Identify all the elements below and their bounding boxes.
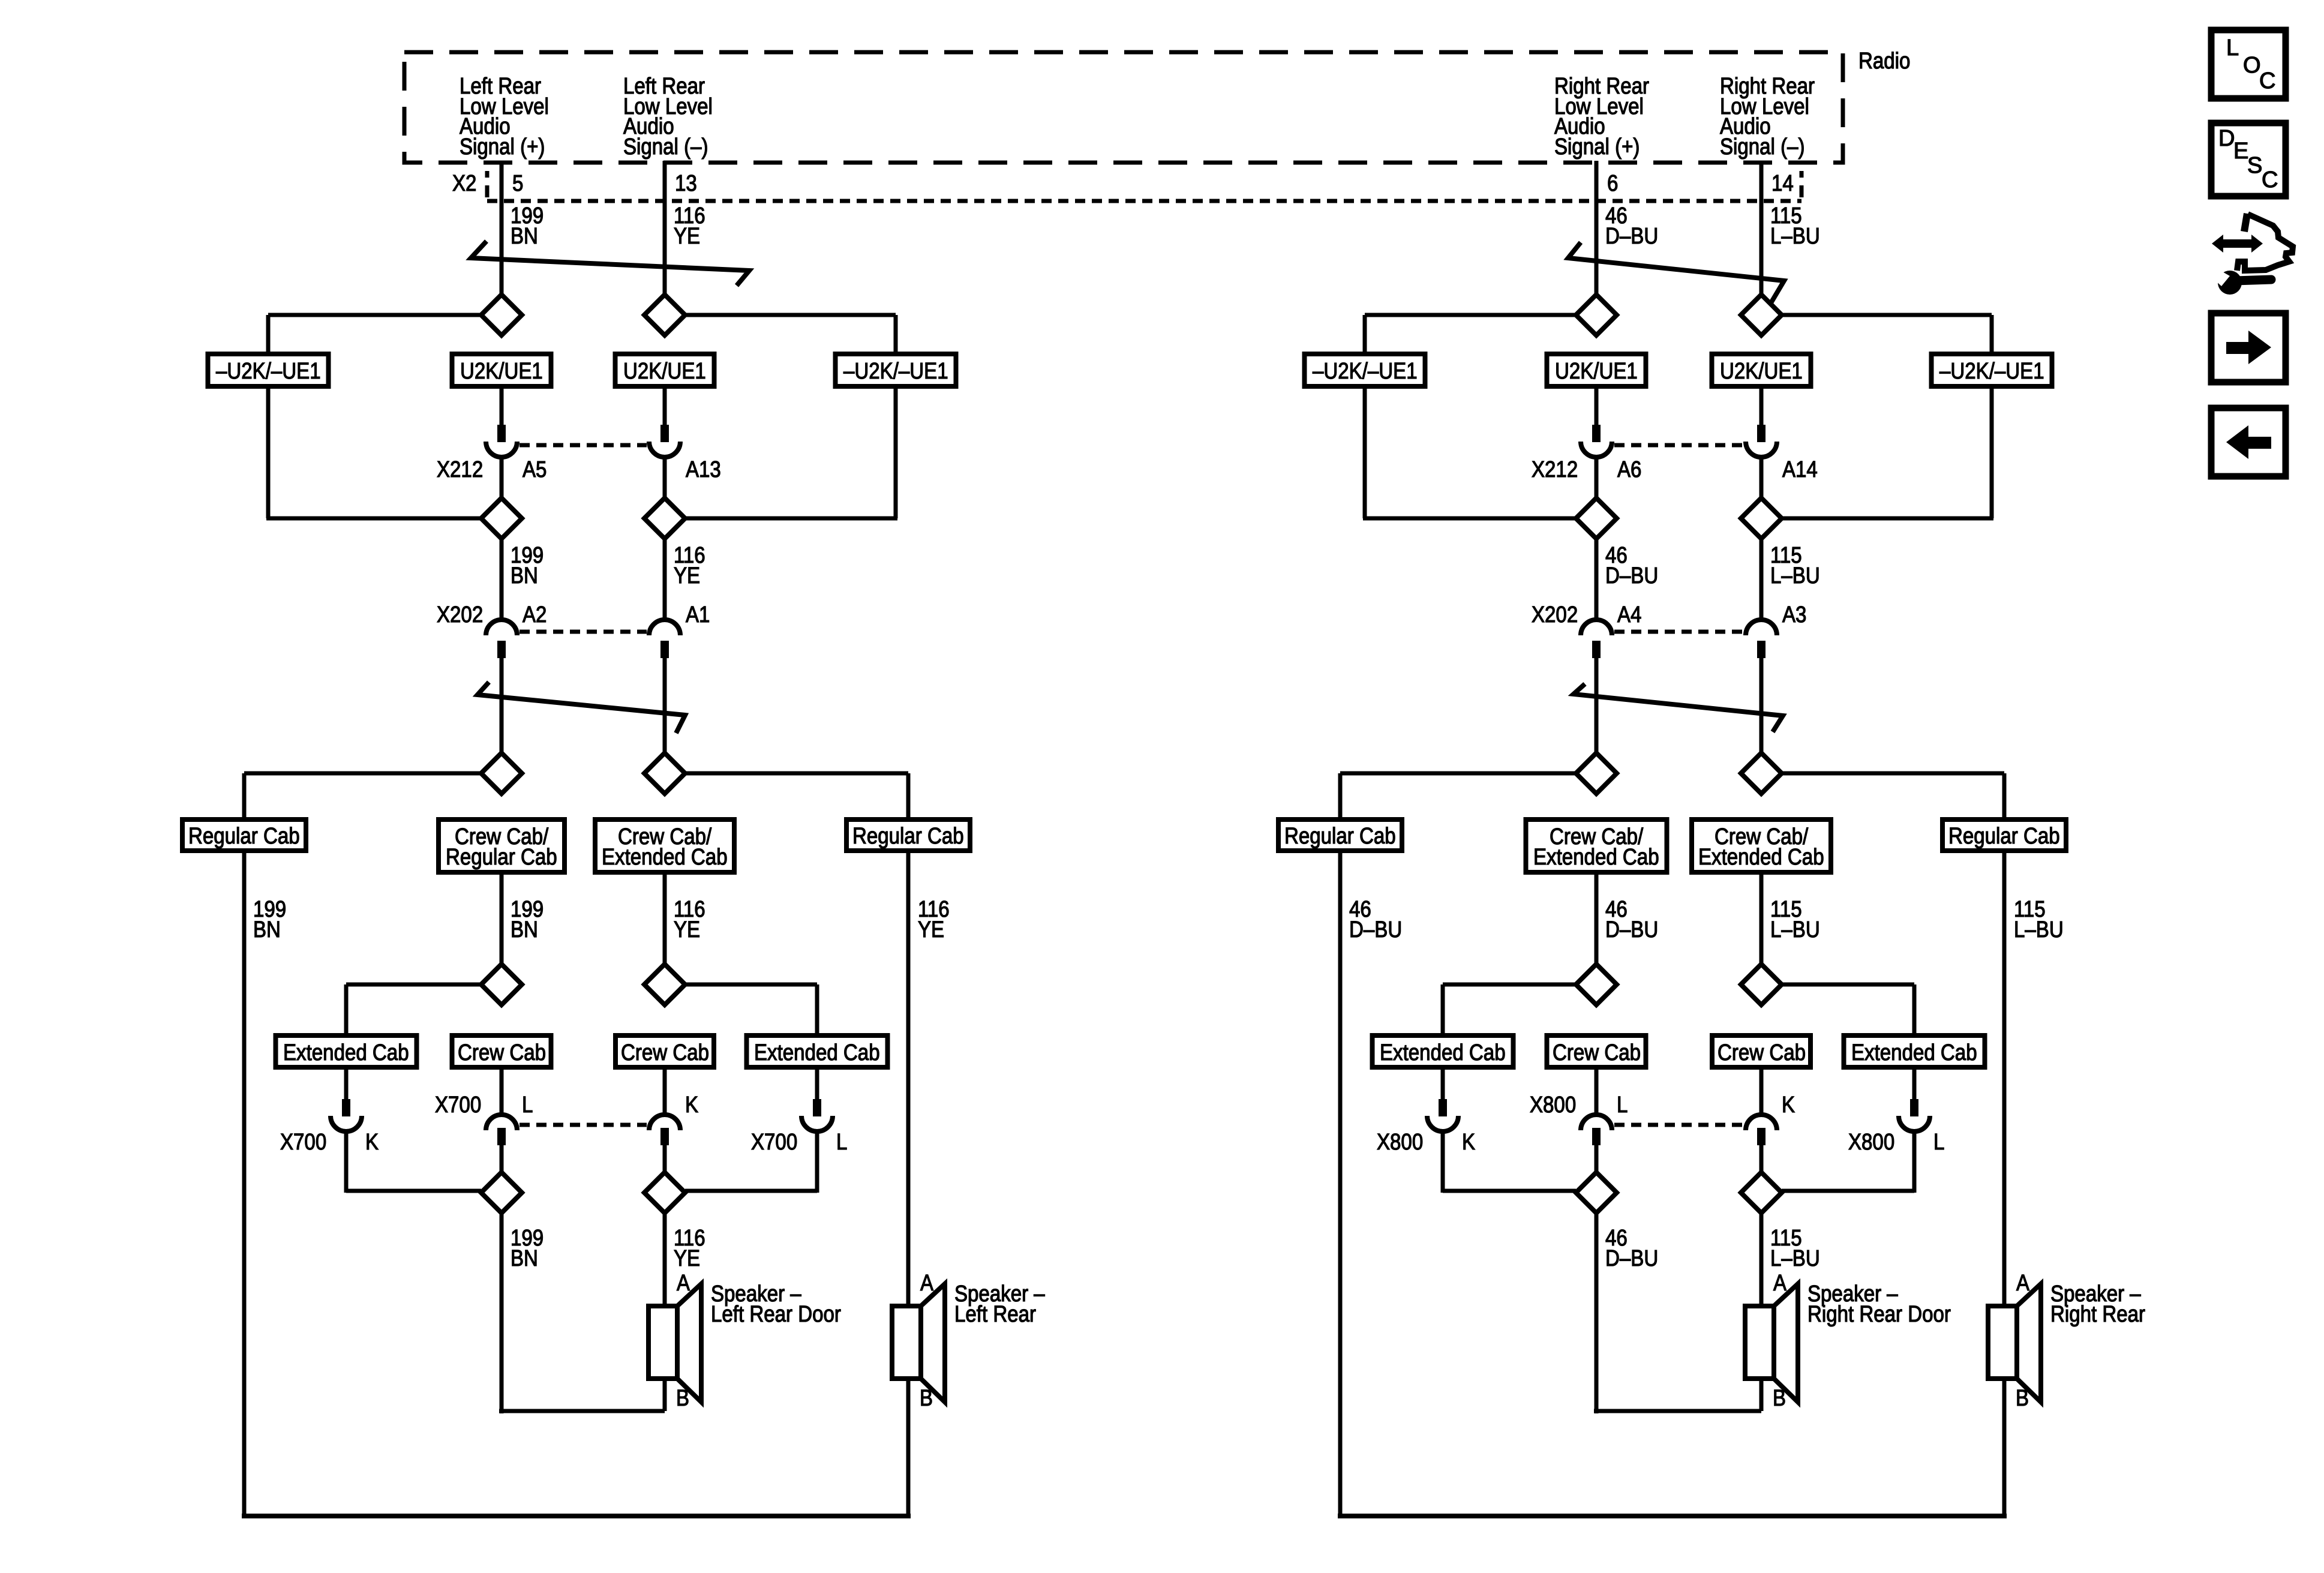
wire center connector to splice row5 (500, 1143, 504, 1173)
left option rail down to splice row2 (1363, 386, 1367, 518)
wire X212 to splice row2 (1595, 458, 1599, 499)
option box Extended Cab (left) (1373, 1035, 1514, 1067)
connector X202 terminal A1 female socket (649, 620, 680, 635)
svg-text:B: B (2016, 1386, 2029, 1411)
svg-text:A14: A14 (1782, 457, 1818, 482)
connector X202 terminal A2 female socket (486, 620, 517, 635)
svg-text:E: E (2233, 139, 2248, 164)
svg-text:C: C (2262, 167, 2278, 193)
svg-text:A: A (1773, 1271, 1787, 1296)
svg-text:Extended Cab: Extended Cab (1851, 1040, 1977, 1065)
wire X202 to splice row3 (500, 656, 504, 754)
off-page arrow crossing wires (top) (471, 241, 749, 286)
svg-text:Regular Cab: Regular Cab (446, 845, 557, 870)
svg-text:A2: A2 (523, 602, 547, 628)
svg-text:–U2K/–UE1: –U2K/–UE1 (1313, 359, 1418, 384)
svg-text:D–BU: D–BU (1349, 917, 1402, 942)
radio dashed outline box (404, 52, 1843, 163)
wire Crew Cab box to connector X700 (500, 1067, 504, 1113)
off-page arrow crossing wires (top) (1568, 242, 1784, 303)
svg-text:L: L (522, 1092, 533, 1118)
option box U2K/UE1 (on wire 1) (452, 354, 551, 386)
wire side connector to splice row5 (right) (1912, 1133, 1917, 1193)
connector X212 terminal A5 male pin (497, 425, 506, 442)
connector X202 terminal A3 female socket (1746, 620, 1777, 635)
connector X202 dashed tie line (520, 630, 647, 634)
wire X212 to splice row2 (663, 458, 667, 499)
wire Extended Cab box to connector X800 (left) (1441, 1067, 1445, 1101)
option box Extended Cab (right) (747, 1035, 888, 1067)
wire X202 to splice row3 (1595, 656, 1599, 754)
connector X202 terminal A1 male pin (660, 641, 669, 658)
Regular Cab rail down to speaker A (906, 851, 911, 1306)
option box Crew Cab (wire2) (615, 1035, 714, 1067)
svg-text:Crew Cab: Crew Cab (1553, 1040, 1641, 1065)
right option rail down to splice row2 (894, 386, 898, 518)
speaker Right Rear Door (1745, 1306, 1774, 1379)
wire arm to Regular Cab rail (right) (685, 772, 908, 776)
bottom return rail (1338, 1514, 2007, 1518)
option box U2K/UE1 (on wire 1) (1547, 354, 1646, 386)
svg-text:X800: X800 (1848, 1130, 1894, 1155)
splice diamond on wire 199 (row3) (481, 753, 522, 794)
svg-text:Extended Cab: Extended Cab (1380, 1040, 1506, 1065)
splice diamond on wire 116 (row1) (644, 295, 685, 335)
option box Crew Cab (wire1) (1547, 1035, 1646, 1067)
svg-text:L: L (1617, 1092, 1628, 1118)
connector X700 terminal L female socket (801, 1116, 833, 1131)
splice diamond on wire 115 (row3) (1741, 753, 1782, 794)
wire U2K option to connector X212 (663, 386, 667, 427)
svg-text:BN: BN (511, 917, 538, 942)
svg-text:K: K (365, 1130, 379, 1155)
svg-text:Signal (–): Signal (–) (623, 134, 708, 160)
wire arm to Extended Cab branch (right) (1782, 983, 1914, 987)
off-page arrow crossing wires (middle) (478, 682, 685, 733)
wire X212 to splice row2 (500, 458, 504, 499)
connector X700 terminal L male pin (813, 1099, 821, 1116)
connector X202 terminal A3 male pin (1757, 641, 1765, 658)
svg-text:A: A (677, 1271, 690, 1296)
connector X2 dashed pass-through line (487, 199, 1801, 203)
option box Crew Cab/Extended Cab (wire2) (595, 819, 734, 872)
wire splice row5 to speaker B (jog) (500, 1213, 504, 1413)
wire 115 L–BU radio pin 14 to splice (1759, 161, 1764, 296)
svg-text:–U2K/–UE1: –U2K/–UE1 (843, 359, 948, 384)
splice diamond on wire 199 (row2) (481, 498, 522, 539)
connector X700 terminal K female socket (331, 1116, 362, 1131)
svg-text:Left Rear: Left Rear (954, 1302, 1036, 1327)
wire Crew Cab box to connector X800 (1759, 1067, 1764, 1113)
connector X700 terminal K male pin (342, 1099, 350, 1116)
connector X800 terminal L female socket (1899, 1116, 1930, 1131)
svg-text:L: L (2226, 35, 2239, 61)
wire splice row2 to connector X202 (1595, 539, 1599, 619)
splice diamond on wire 116 (row4) (644, 964, 685, 1005)
svg-text:X700: X700 (280, 1130, 326, 1155)
svg-text:Radio: Radio (1858, 49, 1910, 74)
connector X202 dashed tie line (1614, 630, 1743, 634)
wire side connector to splice row5 (left) (344, 1133, 349, 1193)
svg-text:6: 6 (1607, 171, 1618, 196)
option box Crew Cab//Extended Cab (wire1) (1526, 819, 1667, 872)
wire Crew Cab box to connector X800 (1595, 1067, 1599, 1113)
svg-text:D–BU: D–BU (1605, 917, 1658, 942)
svg-text:Regular Cab: Regular Cab (852, 824, 964, 849)
svg-text:K: K (1462, 1130, 1475, 1155)
wire Crew Cab box to connector X700 (663, 1067, 667, 1113)
connector X800 terminal K female socket (1427, 1116, 1458, 1131)
svg-text:U2K/UE1: U2K/UE1 (623, 359, 706, 384)
connector X212 terminal A14 male pin (1757, 425, 1765, 442)
wire center connector to splice row5 (1595, 1143, 1599, 1173)
connector X800 dashed tie line (center) (1614, 1123, 1743, 1127)
svg-text:BN: BN (511, 1246, 538, 1271)
svg-text:Crew Cab: Crew Cab (1718, 1040, 1806, 1065)
connector X700 terminal L female socket (486, 1115, 517, 1130)
wire side connector to splice row5 (right) (815, 1133, 819, 1193)
svg-text:D–BU: D–BU (1605, 563, 1658, 589)
svg-text:YE: YE (674, 563, 700, 589)
option box Regular Cab (left) (1278, 819, 1402, 851)
svg-text:BN: BN (511, 563, 538, 589)
svg-text:L: L (1933, 1130, 1944, 1155)
svg-text:X202: X202 (437, 602, 483, 628)
svg-text:L–BU: L–BU (1770, 917, 1820, 942)
svg-text:YE: YE (674, 224, 700, 249)
wire side connector to splice row5 (left) (1441, 1133, 1445, 1193)
svg-text:Signal (+): Signal (+) (460, 134, 545, 160)
wire arm to Regular Cab rail (left) (244, 772, 481, 776)
connector X800 terminal L male pin (1592, 1128, 1601, 1145)
connector X212 terminal A13 female socket (649, 442, 680, 457)
connector X800 terminal K male pin (1439, 1099, 1447, 1116)
off-page arrow crossing wires (middle) (1574, 684, 1783, 732)
splice diamond on wire 46 (row2) (1576, 498, 1617, 539)
svg-text:D: D (2218, 126, 2235, 151)
svg-text:14: 14 (1771, 171, 1794, 196)
wire arm to right option rail (1782, 313, 1992, 317)
svg-text:BN: BN (253, 917, 281, 942)
svg-text:Extended Cab: Extended Cab (754, 1040, 880, 1065)
svg-text:Extended Cab: Extended Cab (1533, 845, 1659, 870)
svg-text:D–BU: D–BU (1605, 1246, 1658, 1271)
option box –U2K/–UE1 (left) (1305, 354, 1425, 386)
Regular Cab rail down to bottom rail (1338, 851, 1343, 1518)
connector X700 terminal K male pin (660, 1128, 669, 1145)
svg-text:Signal (+): Signal (+) (1554, 134, 1640, 160)
connector X2 dashed tick (right) (1800, 171, 1804, 178)
bottom return rail (242, 1514, 911, 1518)
option box Extended Cab (right) (1844, 1035, 1985, 1067)
splice diamond on wire 116 (row3) (644, 753, 685, 794)
svg-text:Extended Cab: Extended Cab (602, 845, 728, 870)
wire below crew cab box to splice row4 (1759, 872, 1764, 966)
connector X700 terminal L male pin (497, 1128, 506, 1145)
svg-text:K: K (1782, 1092, 1795, 1118)
svg-text:X2: X2 (452, 171, 476, 196)
wire arm to Extended Cab branch (left) (1443, 983, 1576, 987)
svg-text:L–BU: L–BU (1770, 1246, 1820, 1271)
wire splice row5 to speaker A (1759, 1213, 1764, 1306)
svg-text:K: K (685, 1092, 698, 1118)
connector X800 terminal K female socket (1746, 1115, 1777, 1130)
connector X212 terminal A14 female socket (1746, 442, 1777, 457)
svg-text:A13: A13 (686, 457, 721, 482)
option box Regular Cab (right) (846, 819, 970, 851)
speaker Left Rear Door (648, 1306, 677, 1379)
wire below crew cab box to splice row4 (663, 872, 667, 966)
wire arm to Regular Cab rail (right) (1782, 772, 2004, 776)
splice diamond on wire 116 (row5) (644, 1172, 685, 1213)
svg-text:U2K/UE1: U2K/UE1 (1555, 359, 1638, 384)
option box Crew Cab/Extended Cab (wire2) (1692, 819, 1831, 872)
svg-text:L–BU: L–BU (1770, 224, 1820, 249)
svg-text:Crew Cab: Crew Cab (621, 1040, 709, 1065)
svg-text:B: B (1773, 1386, 1786, 1411)
svg-text:L–BU: L–BU (2014, 917, 2064, 942)
option box U2K/UE1 (on wire 2) (615, 354, 714, 386)
svg-text:YE: YE (674, 1246, 700, 1271)
svg-text:D–BU: D–BU (1605, 224, 1658, 249)
right option rail down to splice row2 (1990, 386, 1994, 518)
wire arm to right option rail (685, 313, 896, 317)
svg-text:5: 5 (512, 171, 523, 196)
wire splice row5 to speaker B (jog) (1595, 1213, 1599, 1413)
svg-text:Extended Cab: Extended Cab (1698, 845, 1824, 870)
svg-text:B: B (920, 1386, 933, 1411)
wire U2K option to connector X212 (500, 386, 504, 427)
splice diamond on wire 115 (row1) (1741, 295, 1782, 335)
wire X212 to splice row2 (1759, 458, 1764, 499)
splice diamond on wire 115 (row5) (1741, 1172, 1782, 1213)
splice diamond on wire 46 (row5) (1576, 1172, 1617, 1213)
Regular Cab rail down to bottom rail (242, 851, 247, 1518)
wire Extended Cab box to connector X800 (right) (1912, 1067, 1917, 1101)
connector X212 dashed tie line (1614, 443, 1743, 448)
svg-text:Regular Cab: Regular Cab (1948, 824, 2060, 849)
speaker Right Rear (1988, 1306, 2017, 1379)
sidebar LOC icon box (2211, 30, 2286, 98)
svg-text:Crew Cab: Crew Cab (458, 1040, 546, 1065)
svg-text:YE: YE (674, 917, 700, 942)
wire splice row5 to speaker A (663, 1213, 667, 1306)
wire U2K option to connector X212 (1759, 386, 1764, 427)
svg-text:X700: X700 (751, 1130, 797, 1155)
splice diamond on wire 115 (row2) (1741, 498, 1782, 539)
wire 46 D–BU radio pin 6 to splice (1595, 161, 1599, 296)
svg-text:L–BU: L–BU (1770, 563, 1820, 589)
option box Crew Cab (wire2) (1712, 1035, 1810, 1067)
option box Regular Cab (left) (182, 819, 306, 851)
left option rail down to splice row2 (266, 386, 271, 518)
svg-text:A1: A1 (686, 602, 710, 628)
wire X202 to splice row3 (1759, 656, 1764, 754)
speaker Left Rear (892, 1306, 921, 1379)
Regular Cab rail down to speaker A (2002, 851, 2007, 1306)
wire speaker B down to bottom rail (906, 1379, 911, 1518)
wire arm to left option rail (268, 313, 481, 317)
option box Crew Cab (wire1) (452, 1035, 551, 1067)
svg-text:X212: X212 (437, 457, 483, 482)
wire arm to Extended Cab branch (left) (346, 983, 481, 987)
svg-text:B: B (676, 1386, 689, 1411)
wire arm to Extended Cab branch (right) (685, 983, 817, 987)
connector X212 dashed tie line (520, 443, 647, 448)
svg-text:L: L (836, 1130, 847, 1155)
wire U2K option to connector X212 (1595, 386, 1599, 427)
wire Extended Cab box to connector X700 (left) (344, 1067, 349, 1101)
connector X202 terminal A4 male pin (1592, 641, 1601, 658)
connector X800 terminal K male pin (1757, 1128, 1765, 1145)
splice diamond on wire 199 (row1) (481, 295, 522, 335)
svg-text:Regular Cab: Regular Cab (188, 824, 300, 849)
wire Extended Cab box to connector X700 (right) (815, 1067, 819, 1101)
wire below crew cab box to splice row4 (1595, 872, 1599, 966)
option box U2K/UE1 (on wire 2) (1712, 354, 1811, 386)
wire splice row2 to connector X202 (500, 539, 504, 619)
splice diamond on wire 199 (row5) (481, 1172, 522, 1213)
svg-text:X202: X202 (1532, 602, 1578, 628)
svg-text:C: C (2259, 68, 2275, 94)
wire splice row2 to connector X202 (1759, 539, 1764, 619)
connector X700 dashed tie line (center) (520, 1123, 647, 1127)
svg-text:Extended Cab: Extended Cab (283, 1040, 409, 1065)
svg-text:Signal (–): Signal (–) (1720, 134, 1805, 160)
option box Extended Cab (left) (276, 1035, 417, 1067)
wire X202 to splice row3 (663, 656, 667, 754)
svg-text:A: A (2016, 1271, 2030, 1296)
splice diamond on wire 116 (row2) (644, 498, 685, 539)
splice diamond on wire 199 (row4) (481, 964, 522, 1005)
connector X202 terminal A2 male pin (497, 641, 506, 658)
svg-text:X700: X700 (435, 1092, 481, 1118)
connector X212 terminal A6 female socket (1581, 442, 1612, 457)
wire 199 BN radio pin 5 to splice (500, 161, 504, 296)
svg-text:Left Rear Door: Left Rear Door (711, 1302, 841, 1327)
svg-text:A: A (920, 1271, 934, 1296)
svg-text:YE: YE (918, 917, 944, 942)
svg-text:Right Rear Door: Right Rear Door (1807, 1302, 1951, 1327)
option box Crew Cab//Regular Cab (wire1) (439, 819, 565, 872)
splice diamond on wire 46 (row3) (1576, 753, 1617, 794)
svg-text:13: 13 (675, 171, 697, 196)
svg-text:A4: A4 (1617, 602, 1641, 628)
wire below crew cab box to splice row4 (500, 872, 504, 966)
svg-text:A5: A5 (523, 457, 547, 482)
sidebar diagnostic icon part outline (2237, 214, 2293, 271)
connector X700 terminal K female socket (649, 1115, 680, 1130)
svg-text:Right Rear: Right Rear (2050, 1302, 2145, 1327)
splice diamond on wire 46 (row4) (1576, 964, 1617, 1005)
connector X2 dashed tick (left) (485, 171, 490, 178)
connector X800 terminal L female socket (1581, 1115, 1612, 1130)
svg-text:S: S (2247, 153, 2262, 178)
option box –U2K/–UE1 (right) (836, 354, 956, 386)
wire arm to Regular Cab rail (left) (1340, 772, 1576, 776)
sidebar back arrow icon box (2211, 408, 2286, 476)
sidebar diagnostic icon wrench (2218, 271, 2242, 295)
sidebar DESC icon box (2211, 123, 2286, 196)
wire arm to left option rail (1365, 313, 1576, 317)
splice diamond on wire 115 (row4) (1741, 964, 1782, 1005)
svg-text:X212: X212 (1532, 457, 1578, 482)
sidebar forward arrow icon box (2211, 313, 2286, 382)
svg-text:–U2K/–UE1: –U2K/–UE1 (216, 359, 321, 384)
wire speaker B down to bottom rail (2002, 1379, 2007, 1518)
wire splice row2 to connector X202 (663, 539, 667, 619)
option box –U2K/–UE1 (left) (208, 354, 329, 386)
connector X212 terminal A13 male pin (660, 425, 669, 442)
option box Regular Cab (right) (1942, 819, 2066, 851)
connector X212 terminal A5 female socket (486, 442, 517, 457)
svg-text:U2K/UE1: U2K/UE1 (1720, 359, 1803, 384)
svg-text:A6: A6 (1617, 457, 1641, 482)
svg-text:A3: A3 (1782, 602, 1806, 628)
connector X800 terminal L male pin (1910, 1099, 1918, 1116)
splice diamond on wire 46 (row1) (1576, 295, 1617, 335)
svg-text:X800: X800 (1530, 1092, 1576, 1118)
svg-text:O: O (2243, 53, 2261, 78)
sidebar diagnostic icon double arrow (2212, 235, 2263, 253)
svg-text:U2K/UE1: U2K/UE1 (460, 359, 543, 384)
wire 116 YE radio pin 13 to splice (663, 161, 667, 296)
svg-text:–U2K/–UE1: –U2K/–UE1 (1939, 359, 2044, 384)
svg-text:BN: BN (511, 224, 538, 249)
svg-text:Regular Cab: Regular Cab (1284, 824, 1396, 849)
option box –U2K/–UE1 (right) (1932, 354, 2052, 386)
svg-text:X800: X800 (1377, 1130, 1423, 1155)
connector X212 terminal A6 male pin (1592, 425, 1601, 442)
connector X202 terminal A4 female socket (1581, 620, 1612, 635)
